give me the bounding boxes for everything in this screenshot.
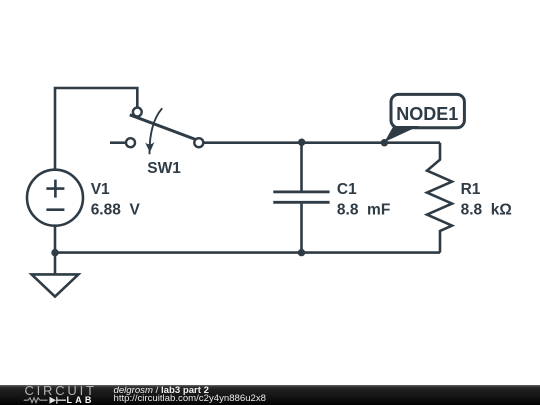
plates	[273, 192, 329, 202]
svg-text:C1: C1	[337, 181, 357, 198]
svg-text:V1: V1	[91, 181, 110, 198]
svg-text:R1: R1	[461, 181, 481, 198]
blade	[130, 115, 196, 140]
wire switch right terminal to top-right corner	[203, 141, 440, 144]
plus sign	[46, 180, 64, 198]
wire + zigzag	[427, 143, 452, 253]
wire V1 bottom	[54, 226, 57, 253]
wire	[300, 143, 303, 253]
right terminal circle	[194, 138, 203, 147]
minus sign	[46, 208, 64, 211]
junction dot at NODE1	[381, 139, 388, 146]
svg-text:LAB: LAB	[67, 395, 95, 405]
switch SW1	[126, 108, 203, 177]
actuation arrow	[149, 108, 162, 154]
left throw circle	[126, 138, 135, 147]
ground	[32, 274, 79, 296]
wire bottom rail	[55, 251, 440, 254]
footer bar	[0, 385, 540, 405]
svg-text:6.88 V: 6.88 V	[91, 202, 141, 219]
junction dot at C1 bottom	[298, 249, 305, 256]
wire from V1 top to switch	[55, 88, 137, 170]
voltage source V1	[27, 170, 140, 226]
wire left throw stub	[110, 141, 126, 144]
CircuitLab logo	[0, 385, 100, 405]
junction dot at V1 bottom / ground	[51, 249, 58, 256]
node label NODE1	[384, 94, 464, 142]
svg-text:SW1: SW1	[147, 160, 181, 177]
svg-text:8.8 kΩ: 8.8 kΩ	[461, 202, 512, 219]
top terminal circle	[133, 108, 142, 117]
wire ground stem	[54, 253, 57, 275]
resistor R1	[427, 143, 512, 253]
junction dot at C1 top	[298, 139, 305, 146]
capacitor C1	[273, 143, 390, 253]
credit text	[113, 384, 115, 386]
svg-text:8.8 mF: 8.8 mF	[337, 202, 390, 219]
svg-text:NODE1: NODE1	[396, 104, 458, 124]
